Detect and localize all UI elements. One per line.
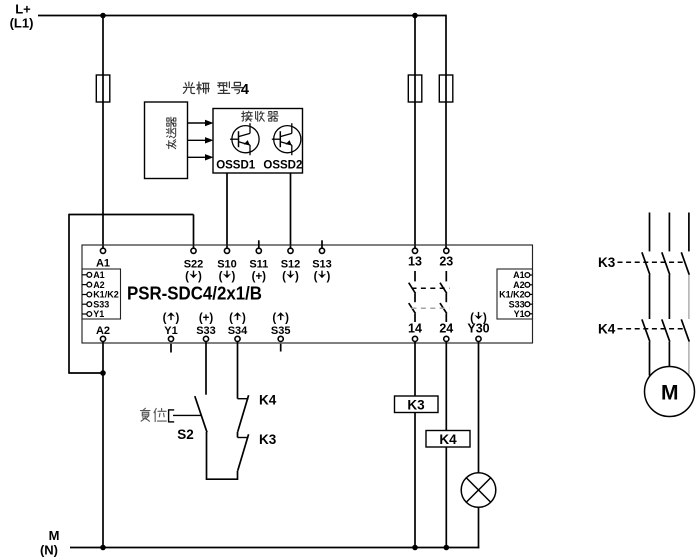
wire bottom M bus [70,547,479,549]
wire S34 down to K4 contact [237,342,239,399]
contact 23-24 mid lead [445,293,447,302]
terminal Y1 [168,336,173,341]
svg-text:13: 13 [408,255,422,269]
wire S33 down to S2 [205,342,207,395]
contact 13-14 mid lead [414,293,416,302]
svg-text:K4: K4 [598,322,616,337]
svg-text:(N): (N) [40,543,58,558]
svg-text:PSR-SDC4/2x1/B: PSR-SDC4/2x1/B [127,283,262,304]
terminal S10 [224,248,229,253]
left map pin A1 [82,274,87,276]
label light-curtain title 光栅 型号4 [183,82,194,94]
svg-text:K1/K2: K1/K2 [93,290,119,300]
wire A1 branch vertical [102,16,104,249]
terminal 14 [412,336,417,341]
contactor K3 pole 2 blade [662,252,670,274]
wire OSSD2 to S12 [290,173,292,248]
right map pin A2 [530,284,533,286]
wire 3-phase mid lead L1 [649,275,651,319]
wire 3-phase top lead L2 [668,213,670,252]
svg-text:Y1: Y1 [164,325,177,337]
relay box PSR-SDC4/2x1/B [82,245,533,343]
wire A2 down to M bus [102,342,104,548]
svg-text:K3: K3 [407,397,425,412]
svg-text:A1: A1 [96,258,110,270]
svg-text:A1: A1 [93,270,105,280]
contact 23-24 blade 2 [440,303,447,314]
svg-text:(L1): (L1) [10,16,34,31]
wire 3-phase top lead L1 [649,213,651,252]
left map pin Y1 [82,313,87,315]
svg-text:A2: A2 [513,280,525,290]
terminal S33 [203,336,208,341]
contact 13-14 blade 1 [409,283,416,294]
wire loop top horizontal to S22 [69,214,194,216]
svg-text:A1: A1 [513,270,525,280]
wire 23 branch vertical [445,15,447,249]
svg-text:(: ( [219,271,223,283]
svg-text:M: M [49,528,60,543]
contactor K4 pole 2 blade [662,319,670,341]
contact K4 fixed tick [238,398,249,400]
right map pin S33 [530,303,533,305]
svg-text:(: ( [314,271,318,283]
svg-text:Y1: Y1 [514,309,525,319]
wire lamp to M bus [478,507,480,548]
fuse F2 [408,75,422,102]
left terminal-map box [82,269,121,319]
node junction loop / A2 wire [100,370,106,376]
contact 13-14 top lead [414,271,416,281]
mechanical link dashed 2 [412,307,450,309]
svg-text:OSSD2: OSSD2 [263,160,302,172]
wire 24 to K4 coil [445,342,447,431]
wire S22 drop [193,215,195,249]
fuse F3 [439,75,453,102]
wire 3-phase bottom lead L2 [668,342,670,367]
svg-text:(+): (+) [199,313,214,325]
contact 23-24 top lead [445,271,447,281]
terminal S11 stub [258,240,260,248]
relay coil K4 [426,431,470,448]
terminal S35 [278,336,283,341]
terminal 13 [412,248,417,253]
relay coil K3 [395,396,439,413]
wire 3-phase top lead L3 [688,213,690,252]
node junction M / K4 [444,545,450,551]
svg-text:): ) [242,313,246,325]
contact 13-14 blade 2 [409,303,416,314]
svg-text:A2: A2 [93,280,105,290]
terminal Y30 [476,336,481,341]
right map pin K1/K2 [530,293,533,295]
wire top L+ bus [38,15,446,17]
svg-text:S33: S33 [196,325,216,337]
svg-text:L+: L+ [15,2,31,17]
svg-text:): ) [295,271,299,283]
svg-text:K3: K3 [598,255,616,270]
svg-text:): ) [231,271,235,283]
contact K3 fixed tick [238,437,249,439]
node junction L+ / 13 branch [412,13,418,19]
wire 3-phase mid lead L2 [668,275,670,319]
wire K4-K3 link [237,432,239,438]
transistor OSSD1 output [232,126,259,153]
node junction M / A2 [100,545,106,551]
terminal S11 [256,248,261,253]
svg-text:(: ( [282,271,286,283]
transistor OSSD2 output [274,126,301,153]
svg-text:(: ( [229,313,233,325]
arrow beam 1 [188,122,207,124]
wire Y30 to lamp [478,342,480,474]
pushbutton S2 blade [195,396,207,432]
svg-text:(: ( [163,313,167,325]
wire K3 to bottom [237,471,239,480]
svg-text:S22: S22 [184,259,204,271]
wire below S2 [206,432,208,480]
svg-text:S12: S12 [281,259,301,271]
svg-text:M: M [661,381,679,404]
fuse F1 [96,75,110,102]
svg-text:(: ( [272,313,276,325]
svg-text:A2: A2 [96,325,110,337]
svg-text:S11: S11 [249,259,268,271]
wire 3-phase bottom lead L3 [688,342,690,376]
terminal S12 [288,248,293,253]
svg-text:23: 23 [439,255,453,269]
terminal S22 [191,248,196,253]
node junction L+ / A1 branch [100,13,106,19]
wire 13 branch vertical [414,16,416,249]
svg-text:): ) [198,271,202,283]
contactor K3 pole 3 blade [681,252,689,274]
svg-text:S10: S10 [217,259,237,271]
contactor K3 link dashed [618,261,687,263]
terminal S34 [235,336,240,341]
svg-text:S35: S35 [271,325,291,337]
terminal 23 [444,248,449,253]
svg-text:Y30: Y30 [467,322,489,336]
terminal Y1 stub [170,344,172,353]
contactor K4 pole 1 blade [642,319,650,341]
wire loop left vertical [68,214,70,374]
contact K4 blade [238,395,249,432]
svg-text:K3: K3 [259,432,277,447]
svg-text:): ) [175,313,179,325]
terminal S13 stub [321,240,323,248]
terminal 24 [444,336,449,341]
terminal A2 [100,336,105,341]
right terminal-map box [497,269,533,319]
svg-text:S33: S33 [509,299,525,309]
svg-text:4: 4 [241,82,249,98]
wire 3-phase bottom lead L1 [649,342,651,376]
svg-text:): ) [285,313,289,325]
arrow beam 2 [188,139,207,141]
label 接收器 [242,111,253,121]
contact 13-14 bottom lead [414,314,416,322]
contact 23-24 bottom lead [445,314,447,322]
wire series bottom [207,478,238,480]
svg-text:Y1: Y1 [93,309,104,319]
wire 14 to K3 coil [414,342,416,397]
contact K3 blade [238,434,249,471]
node junction M / K3 [412,545,418,551]
wire 3-phase mid lead L3 [688,275,690,319]
mechanical link dashed 1 [412,287,450,289]
svg-text:(+): (+) [252,271,267,283]
label 发送器 (vertical) [167,117,176,127]
right map pin A1 [530,274,533,276]
left map pin A2 [82,284,87,286]
left map pin K1/K2 [82,294,87,296]
pushbutton S2 actuator [173,414,201,416]
svg-text:14: 14 [408,322,422,336]
wire K3 coil to M bus [414,413,416,548]
left map pin S33 [82,303,87,305]
arrow beam 3 [188,156,207,158]
svg-text:S34: S34 [228,325,248,337]
svg-text:(: ( [185,271,189,283]
contactor K3 pole 1 blade [642,252,650,274]
terminal S35 stub [280,344,282,352]
terminal A1 [100,248,105,253]
terminal S13 [319,248,324,253]
svg-text:OSSD1: OSSD1 [216,160,256,172]
wire loop bottom horizontal [69,372,103,374]
wire K4 coil to M bus [445,447,447,548]
contactor K4 pole 3 blade [681,319,689,341]
indicator lamp [461,473,496,508]
motor M [645,367,695,417]
svg-text:24: 24 [439,322,453,336]
wire OSSD1 to S10 [226,173,228,248]
label 复位 (reset) [140,408,150,421]
transmitter box 发送器 [145,102,188,179]
contact 23-24 blade 1 [440,283,447,294]
svg-text:K4: K4 [439,432,457,447]
svg-text:S33: S33 [93,299,109,309]
contactor K4 link dashed [618,328,687,330]
right map pin Y1 [530,313,533,315]
svg-text:): ) [326,271,330,283]
svg-text:K1/K2: K1/K2 [499,290,525,300]
svg-text:K4: K4 [259,393,277,408]
receiver box 接收器 [213,109,303,174]
svg-text:S2: S2 [177,427,194,442]
svg-text:S13: S13 [312,259,332,271]
